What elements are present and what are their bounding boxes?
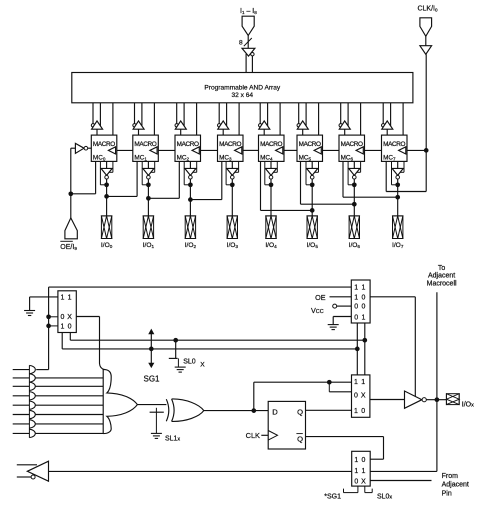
output buffer OB7 (392, 161, 404, 179)
wire pin1 to MC2 adjacent-pin input (148, 161, 179, 198)
svg-text:Macrocell: Macrocell (427, 280, 457, 287)
feedback driver to AND array (complementary) (17, 461, 49, 481)
wire M4 output to buffer (370, 399, 405, 401)
wire array to MC0 (112, 103, 114, 135)
svg-text:1: 1 (354, 408, 358, 415)
ground G2 (328, 325, 339, 330)
output buffer OB1 (143, 161, 155, 179)
svg-text:SL1x: SL1x (165, 436, 180, 443)
macrocell MC1 (133, 135, 159, 162)
wire pin7 to MC6 adjacent-pin input (343, 161, 398, 197)
svg-text:1: 1 (361, 468, 365, 475)
output buffer OB2 (185, 161, 197, 179)
svg-text:0: 0 (361, 408, 365, 415)
wire pin2 to MC3 adjacent-pin input (190, 161, 221, 199)
node pin4 bypass junction (269, 182, 274, 187)
wire M2 row-01 to ground (333, 317, 351, 325)
output select mux M4 (352, 375, 370, 417)
wire OE/I9 to MC0 adjacent-pin input (71, 161, 96, 193)
wire chain MC5-MC6 (323, 149, 340, 151)
node pin5 bypass junction (310, 182, 315, 187)
wire CLK pin to buffer (425, 36, 427, 45)
wire output buffer to I/O3 pin (231, 179, 233, 216)
svg-text:MACRO: MACRO (93, 141, 115, 148)
node feedback-M1 row-10 (46, 324, 51, 329)
node pin2 adjacent junction (188, 197, 193, 202)
node pin6 adjacent junction (352, 202, 357, 207)
svg-text:0: 0 (361, 457, 365, 464)
macrocell MC4 (259, 135, 285, 162)
svg-text:1: 1 (354, 457, 358, 464)
macrocell MC7 (382, 135, 408, 162)
wire pin0 to MC1 adjacent-pin input (107, 161, 138, 196)
svg-text:1: 1 (362, 314, 366, 321)
svg-text:MACRO: MACRO (219, 141, 241, 148)
D flip-flop FF1 (268, 401, 305, 449)
svg-text:0: 0 (354, 393, 358, 400)
wire pin7 feedback to MC7 (392, 161, 398, 184)
svg-text:0: 0 (354, 304, 358, 311)
svg-text:To: To (438, 265, 446, 272)
wire array to MC3 (238, 103, 240, 135)
I/O pin I/O7 (392, 216, 404, 249)
node XOR output junction (251, 408, 256, 413)
svg-text:0: 0 (354, 478, 358, 485)
feedback buffer FB6 (339, 103, 350, 135)
svg-text:Pin: Pin (442, 490, 452, 497)
svg-text:MACRO: MACRO (134, 141, 156, 148)
wire output buffer to I/O7 pin (397, 179, 399, 216)
svg-text:I/Ox: I/Ox (462, 401, 474, 408)
svg-text:0: 0 (362, 295, 366, 302)
node I/Ox pin junction (435, 397, 440, 402)
output buffer OB3 (227, 161, 239, 179)
wire array to MC7 (402, 103, 404, 135)
svg-text:1: 1 (361, 379, 365, 386)
node pin3 bypass junction (230, 182, 235, 187)
fuse SL1-x to ground (150, 408, 181, 443)
output buffer OB6 (349, 161, 361, 179)
node pin1 adjacent junction (146, 196, 151, 201)
output buffer U-OUT (405, 391, 427, 408)
I/O pin I/Ox (446, 394, 474, 409)
wire M1 row-11 to ground (30, 297, 58, 310)
I/O pin I/O6 (349, 216, 361, 249)
label To Adjacent Macrocell (427, 265, 457, 288)
svg-text:1: 1 (354, 379, 358, 386)
svg-text:1: 1 (354, 284, 358, 291)
svg-text:OE: OE (315, 293, 326, 302)
input pin I1-I8 (240, 8, 257, 36)
wire feedback net (output to M1 and AND array) (36, 287, 351, 370)
svg-text:X: X (200, 362, 205, 369)
node pin5 adjacent junction (310, 208, 315, 213)
svg-text:1: 1 (61, 324, 65, 331)
ground G1 (24, 311, 35, 316)
node pin7 bypass junction (395, 182, 400, 187)
feedback buffer FB0 (91, 103, 102, 135)
wire chain MC6-MC7 (365, 149, 382, 151)
feedback buffer FB3 (218, 103, 229, 135)
inverter U-OE (75, 143, 91, 153)
wire array to MC1 (153, 103, 155, 135)
wire pin6 to MC5 adjacent-pin input (301, 161, 355, 204)
node pin0 bypass junction (104, 182, 109, 187)
clock buffer U-CLK (420, 46, 432, 55)
svg-text:Adjacent: Adjacent (428, 273, 455, 280)
wire M3 row-11 to pin node and feedback driver (49, 470, 437, 472)
wire OE pin to junction (70, 194, 72, 218)
feedback buffer FB4 (259, 103, 270, 135)
wire chain MC2-MC3 (201, 149, 218, 151)
macrocell MC6 (339, 135, 365, 162)
input buffer U-IN (242, 48, 255, 72)
svg-text:CLK/I0: CLK/I0 (417, 6, 438, 13)
svg-text:CLK: CLK (246, 431, 260, 440)
wire FF Qbar to mux M3 (306, 437, 384, 460)
wire product terms to OR gate (36, 378, 104, 434)
wire from adjacent pin (370, 480, 431, 482)
wire pin4 feedback to MC4 (265, 161, 271, 184)
svg-text:X: X (361, 478, 366, 485)
wire pin1 feedback to MC1 (142, 161, 148, 184)
node rail-upper junction (362, 338, 367, 343)
input OE to M2 (315, 293, 351, 302)
wire pin2 feedback to MC2 (184, 161, 190, 184)
svg-text:0: 0 (68, 324, 72, 331)
node pin6 bypass junction (352, 182, 357, 187)
node SG1 junction (149, 347, 154, 352)
wire M1 output to OR gate (76, 317, 104, 370)
node OE junction (68, 191, 73, 196)
svg-text:32 x 64: 32 x 64 (231, 92, 253, 99)
fuse *SG1 (324, 486, 358, 501)
bus width slash 8 (239, 38, 252, 46)
wire chain MC4-MC5 (284, 149, 297, 151)
feedback select mux M1 (58, 291, 76, 333)
feedback buffer FB7 (382, 103, 393, 135)
XOR gate G-XOR (166, 399, 204, 421)
wire chain MC3-MC4 (243, 149, 259, 151)
node CLK chain junction (424, 148, 429, 153)
wire chain MC7-CLK (407, 149, 426, 151)
svg-text:SL0: SL0 (183, 359, 196, 366)
svg-text:D: D (272, 407, 278, 416)
wire array to MC5 (318, 103, 320, 135)
I/O pin I/O1 (143, 216, 155, 249)
wire to adjacent macrocell (436, 292, 438, 471)
wire pin3 feedback to MC3 (226, 161, 232, 184)
clock pin CLK/I0 (417, 6, 438, 37)
wire output buffer to I/O5 pin (311, 179, 313, 216)
svg-text:MACRO: MACRO (260, 141, 282, 148)
macrocell MC2 (175, 135, 201, 162)
wire OR output to XOR (137, 404, 166, 406)
feedback buffer FB2 (175, 103, 186, 135)
steering arrow SG1 (143, 330, 160, 384)
feedback buffer FB1 (133, 103, 144, 135)
svg-text:X: X (361, 393, 366, 400)
label From Adjacent Pin (442, 473, 469, 498)
fuse SL0x (365, 486, 393, 501)
svg-text:Adjacent: Adjacent (442, 482, 469, 489)
node pin2 bypass junction (188, 182, 193, 187)
I/O pin I/O0 (101, 216, 113, 249)
svg-text:Q: Q (297, 434, 303, 443)
svg-text:Q: Q (297, 407, 303, 416)
wire M1 to output mux (lower rail) (62, 333, 357, 349)
register select mux M3 (352, 451, 371, 486)
wire chain MC1-MC2 (158, 149, 175, 151)
feedback buffer FB5 (297, 103, 308, 135)
wire M1 to output mux (upper rail) (70, 333, 365, 341)
wire array to MC4 (279, 103, 281, 135)
node rail-lower junction (355, 347, 360, 352)
macrocell MC5 (297, 135, 323, 162)
svg-text:SG1: SG1 (143, 375, 160, 384)
output buffer OB0 (101, 161, 113, 179)
wire M2 outputs to output mux (357, 323, 365, 375)
wire OE junction to inverter (71, 148, 76, 194)
output enable mux M2 (351, 280, 370, 323)
svg-text:MACRO: MACRO (177, 141, 199, 148)
svg-text:MACRO: MACRO (299, 141, 321, 148)
wire CLK vertical (425, 54, 427, 191)
node pin7 adjacent junction (395, 195, 400, 200)
svg-text:1: 1 (354, 295, 358, 302)
wire XOR output to output mux (254, 382, 352, 410)
svg-text:1: 1 (362, 284, 366, 291)
macrocell MC3 (218, 135, 244, 162)
wire output buffer to I/O0 pin (106, 179, 108, 216)
I/O pin I/O4 (265, 216, 277, 249)
wire FF Q to output mux (306, 409, 352, 411)
I/O pin I/O3 (227, 216, 239, 249)
svg-text:0: 0 (354, 314, 358, 321)
svg-text:MACRO: MACRO (383, 141, 405, 148)
wire output buffer to I/O6 pin (353, 179, 355, 216)
wire I1-I8 pin to buffer (247, 36, 249, 49)
wire pin0 feedback to MC0 (100, 161, 106, 184)
svg-text:Programmable AND Array: Programmable AND Array (204, 84, 281, 91)
output buffer OB4 (265, 161, 277, 179)
wire CLK to MC7 adjacent-pin input (386, 161, 426, 191)
svg-text:1: 1 (354, 468, 358, 475)
wire output buffer to I/O4 pin (270, 179, 272, 216)
svg-text:8: 8 (239, 39, 243, 46)
clock input CLK (246, 431, 269, 440)
node SL0 junction (173, 338, 178, 343)
svg-text:1: 1 (68, 295, 72, 302)
wire M2 output to buffer enable (OE net) (370, 297, 415, 397)
node feedback-M1 row-0X (46, 314, 51, 319)
OR gate G-SUM (103, 369, 137, 433)
wire output buffer to I/O2 pin (189, 179, 191, 216)
node output-mux branch (327, 380, 332, 385)
wire buffer to I/Ox pin (426, 399, 446, 401)
svg-text:0: 0 (362, 304, 366, 311)
output buffer OB5 (307, 161, 319, 179)
I/O pin I/O5 (307, 216, 319, 249)
wire output buffer to I/O1 pin (147, 179, 149, 216)
fuse SL0-X to ground (169, 340, 205, 372)
programmable AND array (72, 73, 413, 103)
node pin1 bypass junction (146, 182, 151, 187)
wire XOR output to FF D (204, 410, 268, 412)
wire pin5 feedback to MC5 (306, 161, 312, 184)
svg-text:X: X (67, 314, 72, 321)
wire pin6 feedback to MC6 (348, 161, 354, 184)
I/O pin I/O2 (185, 216, 197, 249)
enable pin OE/I9 (60, 218, 77, 251)
svg-text:0: 0 (61, 314, 65, 321)
node pin0 adjacent junction (104, 194, 109, 199)
macrocell MC0 (91, 135, 117, 162)
AND array product-term inputs (8 fuse rows) (13, 365, 36, 437)
wire array to MC2 (196, 103, 198, 135)
wire array to MC6 (360, 103, 362, 135)
wire chain MC0-MC1 (117, 149, 133, 151)
wire pin5 to MC4 adjacent-pin input (261, 161, 313, 210)
svg-text:*SG1: *SG1 (324, 494, 341, 501)
input Vcc to M2 (311, 304, 351, 315)
svg-text:MACRO: MACRO (341, 141, 363, 148)
svg-text:From: From (442, 473, 459, 480)
svg-text:1: 1 (61, 295, 65, 302)
svg-text:SL0x: SL0x (377, 494, 392, 501)
